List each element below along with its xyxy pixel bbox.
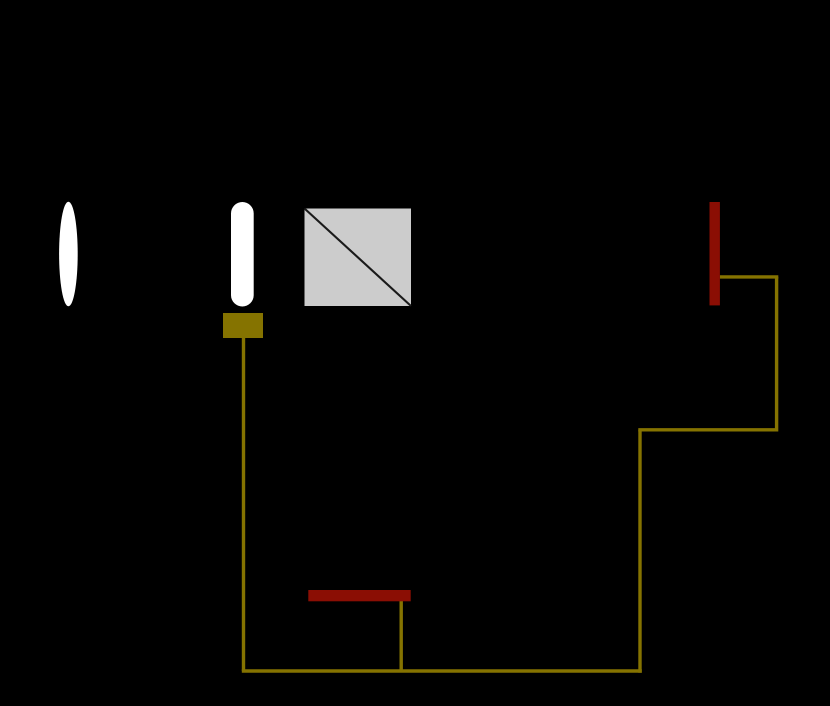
wire to right mirror: [720, 275, 779, 278]
right mirror: [710, 202, 720, 305]
detector box: [223, 313, 263, 338]
wire far-right riser: [775, 277, 778, 432]
beam splitter diagonal: [305, 209, 412, 307]
wire stub from bottom mirror to bus: [400, 600, 403, 671]
wire bottom bus: [242, 669, 642, 672]
bottom mirror: [308, 590, 410, 601]
wire from detector down to bottom bus: [242, 336, 245, 671]
light source capsule: [231, 202, 254, 307]
wire right riser from bus up: [638, 430, 641, 673]
lens (white ellipse): [59, 202, 78, 307]
wire middle horizontal run: [638, 428, 776, 431]
beam splitter cube: [305, 209, 412, 307]
